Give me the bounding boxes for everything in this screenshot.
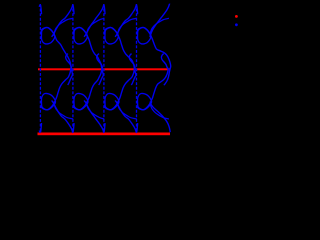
top ascender 1 [52,4,73,37]
bottom loop oval 2 [74,93,88,109]
top band edge 4 [150,18,169,36]
red2 landing hook at dash 2 [72,123,75,132]
peak drop at dash 1 [40,5,43,14]
peak drop at dash 3 [103,5,106,14]
top loop oval 2 [74,27,87,43]
top ascender 2 [84,4,104,37]
top band edge 1 [54,18,73,36]
bottom snake period1 [41,54,71,110]
bottom snake period2 [74,54,103,110]
dashed vertical zone-boundary line 2 [72,4,74,133]
trajectory snake period1 [41,27,72,85]
trajectory snake period3 [105,27,136,85]
bottom descender to lower red 2 [84,101,104,134]
bottom descender to lower red 4 [150,104,170,133]
peak tip at dash 1 [39,4,40,6]
bottom descender to lower red 3 [115,101,136,134]
top loop oval 1 [41,27,54,43]
top loop oval 3 [105,27,118,43]
bottom band edge 2 [87,102,105,120]
landing tip at dash 1 [39,131,40,133]
red line Fermi level top subplot [38,68,170,70]
bottom snake period4 [137,54,169,110]
trajectory snake period4 [137,27,170,85]
bottom band edge 3 [118,102,137,120]
red2 landing hook at dash 1 [40,123,43,132]
top ascender 3 [115,4,136,37]
red2 landing hook at dash 4 [136,123,139,132]
bottom loop oval 1 [41,93,55,109]
dashed vertical zone-boundary line 4 [136,4,138,133]
bottom descender to lower red 1 [52,101,73,134]
legend dot blue [235,23,238,26]
bottom loop oval 4 [138,93,152,109]
legend dot red [235,15,238,18]
bottom band edge 4 [150,102,169,120]
peak drop at dash 4 [136,5,139,14]
bottom snake period3 [105,54,135,110]
bottom loop oval 3 [105,93,119,109]
top band edge 3 [118,18,137,36]
red2 landing hook at dash 3 [103,123,106,132]
dashed vertical zone-boundary line 3 [103,4,105,133]
top loop oval 4 [138,27,151,43]
top band edge 2 [87,18,105,36]
bottom band edge 1 [54,102,73,120]
dashed vertical zone-boundary line 1 [39,4,41,133]
red line Fermi level bottom subplot [38,133,171,136]
top ascender 4 [150,4,170,38]
peak drop at dash 2 [72,5,75,14]
trajectory snake period2 [74,27,104,85]
